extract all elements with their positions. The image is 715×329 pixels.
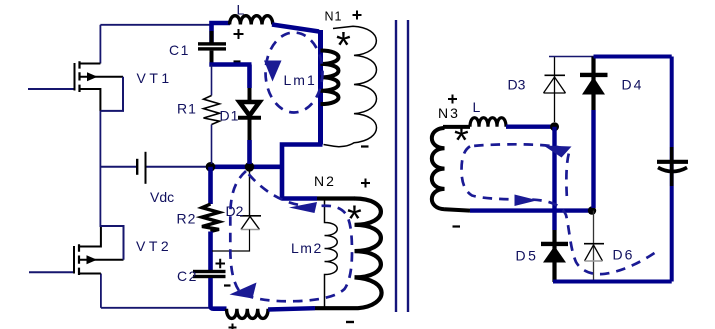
wire top rail secondary (thick) [594,55,672,59]
wire N1 bottom jog [282,145,323,199]
node B [588,206,596,214]
label minus C2 [224,284,231,286]
winding N1 (thin arcs) [324,26,377,146]
svg-text:Lm1: Lm1 [284,72,317,88]
label plus N2 [361,179,370,188]
node dot2 [245,162,255,172]
svg-text:VT2: VT2 [136,238,172,254]
arrow secondary right (up) [544,146,572,158]
svg-text:L: L [473,99,481,115]
label N3 minus [453,225,461,227]
wire coil to N2 bottom [268,308,315,309]
svg-text:D4: D4 [622,77,644,93]
node A [550,122,559,131]
svg-text:N3: N3 [438,105,460,121]
svg-text:R2: R2 [177,211,197,227]
diode D6 [593,211,595,281]
wire N3 top lead [443,125,470,129]
svg-text:R1: R1 [177,101,197,117]
wire bottom rail [101,307,211,309]
inductor (bottom coil) [227,309,269,319]
wire bottom rail secondary [553,280,672,284]
wire top rail [100,24,211,26]
label bottom minus [346,321,354,323]
resistor R2 (thick) [208,167,213,204]
capacitor output [657,160,688,164]
diode D2 (thin) [249,167,251,216]
wire C2 bottom corner [211,278,227,309]
wire L to node A [506,124,556,128]
diode D3 [554,57,556,123]
wire thick center rail [206,165,282,170]
wire right rail [670,57,674,282]
battery Vdc [100,152,206,184]
svg-text:D6: D6 [613,247,635,263]
arrow N2 top (left) [289,202,317,213]
label bottom plus [229,324,237,329]
svg-text:N2: N2 [314,173,336,189]
winding Lm1 coil (thick) [321,51,339,105]
inductor L [230,16,273,25]
svg-text:D1: D1 [220,108,240,124]
capacitor C1 [212,23,231,43]
wire L to N1 (diagonal) [272,25,319,32]
wire left rail (VT1 source to VT2 drain) [99,110,101,227]
svg-text:C2: C2 [177,268,198,284]
svg-text:D5: D5 [516,248,539,264]
svg-text:D2: D2 [226,203,244,219]
wire VT2 source vertical [100,274,102,308]
wire top rail secondary (thin) [549,56,594,58]
svg-text:L: L [237,2,245,18]
wire N1 vertical [318,30,323,145]
label N3 plus [448,95,457,104]
current loop Lm1 (dashed) [266,33,323,113]
label plus N1 [353,11,362,20]
svg-text:C1: C1 [169,42,190,58]
resistor R1 [211,65,213,96]
capacitor C2 [193,270,226,273]
wire N3 bottom to node B [470,208,592,212]
label plus C1 [234,29,244,39]
svg-text:N1: N1 [325,10,343,24]
node dot1 [206,162,216,172]
label plus C2 [216,259,226,269]
current loop N2 (dashed) [230,171,352,301]
label minus C1 [234,60,241,62]
diode D5 [552,230,556,282]
svg-text:*: * [336,25,353,67]
svg-text:Vdc: Vdc [150,189,174,205]
transistor VT2 [29,226,124,275]
inductor L secondary [470,118,506,127]
transistor VT1 [28,61,123,111]
svg-text:D3: D3 [508,77,526,93]
diode D1 [247,65,252,89]
arrow secondary bottom (right) [515,195,538,207]
svg-text:VT1: VT1 [137,70,173,86]
winding N3 (thick arcs) [432,128,445,209]
svg-text:*: * [454,120,471,162]
wire leg A [552,127,556,230]
svg-text:Lm2: Lm2 [291,240,323,256]
arrow N2 bottom-left [230,283,257,299]
wire C1 bottom to D1 [209,62,251,67]
winding N2 (thick arcs) [355,199,381,278]
arrow Lm1 [264,61,282,82]
label minus N1 [361,145,369,147]
inductance Lm2 (thin coil) [325,199,338,309]
transformer core [395,20,397,312]
current loop secondary (dashed) [462,146,657,274]
wire N2 top lead [282,196,317,201]
wire VT1 drain vertical [99,25,101,64]
diode D4 [591,57,595,111]
